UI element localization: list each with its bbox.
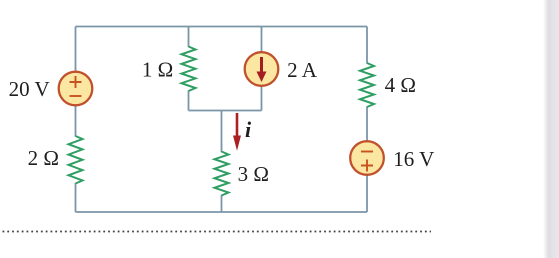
wire: 1-ohm resistor to middle node [188,91,190,111]
wire: 3-ohm resistor to bottom net [221,195,223,212]
wire: bottom horizontal net [76,211,368,213]
wire: left branch between 20V source and 2-ohm resistor [75,106,77,137]
svg-text:4 Ω: 4 Ω [385,73,416,97]
label: 1 ohm value [142,58,173,82]
svg-text:3 Ω: 3 Ω [238,162,269,186]
label: 4 ohm value [385,73,416,97]
wire: 2A source to middle node [261,86,263,111]
voltage source 16V circle [350,141,384,175]
wire: right branch bottom segment [366,176,368,213]
label: 20 V value [9,77,50,101]
wire: middle horizontal net [189,110,262,112]
wire: right branch between 4-ohm resistor and 16V source [366,107,368,141]
wire: 1-ohm branch top segment [188,27,190,48]
svg-text:2 A: 2 A [287,58,318,82]
resistor 3-ohm zigzag [215,152,229,196]
wire: left branch bottom segment [75,183,77,212]
resistor 4-ohm zigzag [360,63,374,107]
label: 16 V value [393,147,434,171]
wire: right branch top segment [366,27,368,64]
label: current i [245,117,252,142]
wire: 2A branch top segment [261,27,263,53]
svg-text:20 V: 20 V [9,77,50,101]
label: 2 A value [287,58,318,82]
label: 3 ohm value [238,162,269,186]
resistor 1-ohm zigzag [182,47,196,92]
resistor 2-ohm zigzag [69,136,83,184]
current source 2A circle with down arrow [245,52,279,86]
svg-text:1 Ω: 1 Ω [142,58,173,82]
label: 2 ohm value [28,146,59,170]
svg-text:2 Ω: 2 Ω [28,146,59,170]
current arrow i [233,113,241,151]
dotted separator line [3,231,432,233]
svg-text:i: i [245,117,252,142]
wire: left branch top segment [75,27,77,72]
wire: middle node down to 3-ohm resistor [221,111,223,153]
svg-text:16 V: 16 V [393,147,434,171]
voltage source 20V circle [59,72,93,106]
wire: top horizontal net [76,26,368,28]
